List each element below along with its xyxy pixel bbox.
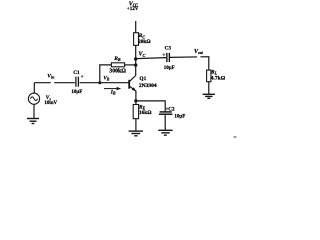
svg-text:4.7kΩ: 4.7kΩ: [211, 75, 226, 81]
svg-text:C1: C1: [73, 70, 80, 76]
svg-text:2N3904: 2N3904: [139, 83, 157, 89]
svg-text:10mV: 10mV: [44, 101, 57, 106]
svg-text:RB: RB: [113, 56, 121, 62]
svg-text:Q1: Q1: [139, 76, 146, 82]
svg-text:C3: C3: [165, 45, 172, 51]
svg-text:+: +: [162, 52, 165, 58]
svg-text:VC: VC: [139, 52, 146, 58]
svg-text:16kΩ: 16kΩ: [139, 110, 152, 116]
svg-text:20kΩ: 20kΩ: [138, 39, 151, 45]
svg-text:10μF: 10μF: [174, 114, 185, 119]
svg-text:IB: IB: [110, 90, 116, 96]
svg-text:+: +: [81, 74, 84, 80]
svg-text:300kΩ: 300kΩ: [109, 69, 126, 75]
svg-text:10μF: 10μF: [71, 90, 82, 95]
svg-text:Vin: Vin: [47, 73, 55, 79]
svg-text:10μF: 10μF: [164, 66, 175, 71]
svg-text:+12V: +12V: [127, 6, 139, 12]
svg-text:C2: C2: [168, 107, 175, 113]
